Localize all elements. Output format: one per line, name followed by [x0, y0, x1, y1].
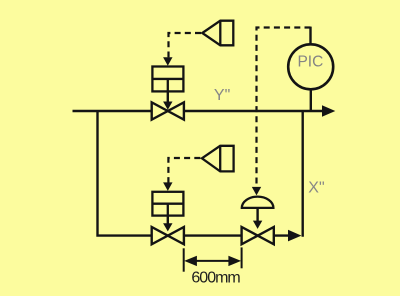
svg-text:X": X": [308, 179, 324, 196]
svg-text:600mm: 600mm: [191, 269, 240, 286]
svg-text:PIC: PIC: [297, 53, 323, 70]
svg-text:Y": Y": [214, 87, 230, 104]
